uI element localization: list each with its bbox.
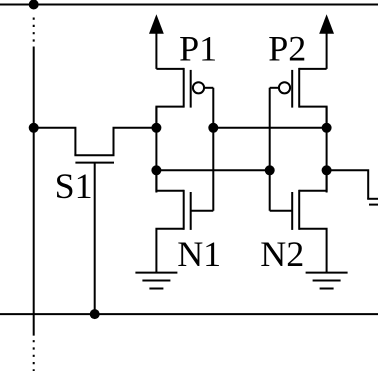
svg-text:P2: P2 xyxy=(268,28,306,68)
transistor S2 channel partial xyxy=(367,198,378,200)
wire P2 source stem xyxy=(326,33,328,69)
transistor N2 channel xyxy=(298,190,300,230)
svg-text:N1: N1 xyxy=(177,234,221,274)
node A row1 junction xyxy=(151,123,161,133)
wire N2 drain lead xyxy=(299,170,326,191)
wire S1 left lead xyxy=(34,128,76,156)
svg-text:P1: P1 xyxy=(179,28,217,68)
wire S1 right lead xyxy=(114,128,157,156)
transistor S1 channel xyxy=(74,154,114,156)
wire P1 source lead xyxy=(156,68,183,70)
power VDD arrow P2 xyxy=(319,14,334,34)
wire node B column xyxy=(326,107,328,193)
node B row2 junction xyxy=(322,165,332,175)
ground N2 xyxy=(306,273,348,289)
transistor N1 channel xyxy=(183,190,185,230)
node S1 left junction xyxy=(29,123,39,133)
transistor N1 gate bar xyxy=(190,192,192,230)
wire N1 source lead xyxy=(156,229,183,273)
wire P1 source stem xyxy=(155,33,157,69)
wire N1 drain lead xyxy=(156,170,183,191)
wire cross-coupling row1 xyxy=(213,127,326,129)
wire P2 source lead xyxy=(299,68,326,70)
wire left bitline dotted upper xyxy=(33,18,35,43)
wire N2 gate lead xyxy=(270,210,293,212)
power VDD arrow P1 xyxy=(149,14,164,34)
transistor P2 gate bubble xyxy=(279,82,290,93)
wire bottom rail xyxy=(0,313,378,315)
wire P1 gate lead xyxy=(204,87,213,89)
wire P2 drain lead xyxy=(299,107,326,128)
node gate column right junction xyxy=(265,165,275,175)
wire gate column left xyxy=(212,88,214,211)
wire S1 gate lead xyxy=(94,163,96,315)
wire node A column xyxy=(155,107,157,193)
wire P2 gate lead xyxy=(270,87,279,89)
transistor P2 gate bar xyxy=(291,70,293,108)
wire N2 source lead xyxy=(299,229,326,273)
wire top rail xyxy=(0,4,378,6)
ground N1 xyxy=(135,273,177,289)
transistor N2 gate bar xyxy=(291,192,293,230)
wire N1 gate lead xyxy=(191,210,214,212)
node B row1 junction xyxy=(322,123,332,133)
wire cross-coupling row2 xyxy=(156,169,269,171)
transistor P1 gate bar xyxy=(190,70,192,108)
wire left bitline solid xyxy=(33,47,35,336)
node gate column left junction xyxy=(208,123,218,133)
wire gate column right xyxy=(269,88,271,211)
node A row2 junction xyxy=(151,165,161,175)
node bottom rail junction xyxy=(90,309,100,319)
node top-left junction xyxy=(29,0,39,10)
transistor S2 gate bar partial xyxy=(369,204,378,206)
svg-text:N2: N2 xyxy=(260,234,304,274)
transistor P1 channel xyxy=(183,68,185,108)
transistor P1 gate bubble xyxy=(193,82,204,93)
wire left bitline dotted lower xyxy=(33,340,35,371)
wire node B to S2 xyxy=(327,170,369,199)
transistor P2 channel xyxy=(298,68,300,108)
wire P1 drain lead xyxy=(156,107,183,128)
svg-text:S1: S1 xyxy=(55,166,93,206)
transistor S1 gate bar xyxy=(75,162,114,164)
